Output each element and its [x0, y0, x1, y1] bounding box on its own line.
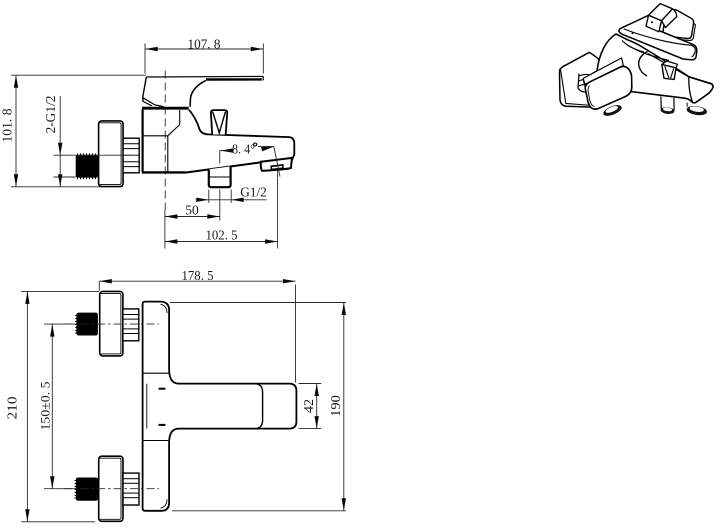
iso diverter knob [662, 61, 678, 79]
top arm inner bevel [161, 304, 168, 313]
dimension 42 (spout width) [299, 384, 322, 429]
bottom ribbed connector (plan) [123, 473, 139, 505]
iso lever grip paddle [646, 4, 677, 32]
handle neck curve (lever underside) [190, 81, 206, 107]
centerline top inlet [64, 323, 159, 325]
aerator cap line (plan) [256, 384, 262, 429]
escutcheon inner box [143, 135, 168, 137]
iso bar foot top strip [583, 58, 623, 84]
svg-text:150±0. 5: 150±0. 5 [38, 382, 53, 431]
bottom inlet nut (black) [76, 478, 98, 501]
svg-text:210: 210 [5, 396, 20, 419]
inlet axis line [54, 154, 134, 156]
dimension 107.8 (top width) [145, 37, 263, 74]
iso foot bottom rim ring [602, 103, 623, 118]
svg-text:178. 5: 178. 5 [182, 268, 214, 283]
inlet nut (threaded, black) [76, 155, 98, 178]
spout left inner line [146, 384, 148, 429]
centerline bottom inlet [64, 488, 159, 490]
small dot on spout [254, 143, 257, 146]
svg-text:8. 4°: 8. 4° [232, 142, 255, 157]
handle lever tip [262, 76, 264, 80]
iso spout end cap [689, 77, 713, 103]
body left edge [142, 110, 144, 173]
iso foot bevel [588, 86, 594, 107]
svg-text:102. 5: 102. 5 [206, 228, 238, 243]
svg-text:107. 8: 107. 8 [188, 37, 221, 52]
svg-text:101. 8: 101. 8 [0, 108, 15, 142]
bottom wall flange (plan) [99, 456, 123, 521]
centerline handle axis [164, 71, 166, 211]
dimension 8.4 degrees (spout angle) [220, 142, 275, 164]
dimension 190 (body height) [170, 303, 346, 511]
handle lever top edge [146, 75, 263, 78]
shower outlet box [209, 166, 231, 187]
ribbed connector (side view) [123, 138, 139, 173]
body bottom edge [142, 171, 186, 173]
iso aerator cylinder at tip [686, 103, 688, 107]
iso bar foot end face [585, 66, 632, 109]
top ribbed connector (plan) [123, 309, 139, 341]
top inlet nut (black) [76, 313, 98, 336]
svg-text:2-G1/2: 2-G1/2 [43, 96, 58, 134]
top arm face line [143, 372, 170, 374]
iso lever blade [619, 15, 697, 60]
body bar with spout (plan outline) [143, 302, 297, 511]
iso front wall flange [559, 52, 600, 107]
svg-text:G1/2: G1/2 [240, 185, 267, 200]
dimension 50 (outlet offset) [165, 190, 220, 221]
dimension 210 (overall height) [5, 291, 100, 521]
bottom arm inner bevel [161, 499, 168, 508]
handle lever blade (thick right part) [206, 78, 262, 80]
bottom arm face line [143, 440, 170, 442]
dimension 150+-0.5 (inlet spacing) [38, 324, 77, 489]
dimension 101.8 (left height) [0, 75, 146, 187]
svg-text:50: 50 [185, 203, 199, 218]
iso dots on blade [651, 21, 653, 23]
iso ribbed connector [578, 74, 591, 93]
aerator block at spout tip [261, 158, 292, 171]
iso rear wall flange [663, 10, 695, 41]
diverter knob [211, 110, 227, 134]
label 2-G1/2 (inlet thread) [43, 96, 76, 187]
iso body C-opening [639, 52, 648, 77]
svg-text:190: 190 [328, 395, 343, 417]
iso spout front-top edge [648, 54, 689, 77]
aerator notch [271, 165, 283, 170]
label G1/2 (shower outlet thread) [196, 185, 267, 203]
iso blade face edge [624, 29, 696, 57]
handle base left edge [143, 77, 147, 101]
wall flange (side view) [99, 121, 124, 187]
spout bottom slant line [185, 162, 261, 172]
svg-text:42: 42 [301, 399, 316, 413]
iso body with spout (silhouette) [584, 34, 713, 109]
dimension 178.5 (overall length) [99, 268, 295, 383]
slot mark upper [159, 388, 166, 390]
handle base bottom wedge lines [143, 98, 155, 105]
top wall flange (plan) [100, 291, 123, 356]
body C-curve into spout top edge [189, 110, 294, 161]
slot mark lower [159, 424, 166, 426]
iso shower outlet cylinder [661, 97, 674, 111]
cartridge collar bar [142, 107, 189, 110]
dimension 102.5 (spout reach) [165, 171, 278, 249]
angle leader leg through aerator [274, 147, 280, 177]
iso cartridge cap curves [627, 45, 670, 61]
